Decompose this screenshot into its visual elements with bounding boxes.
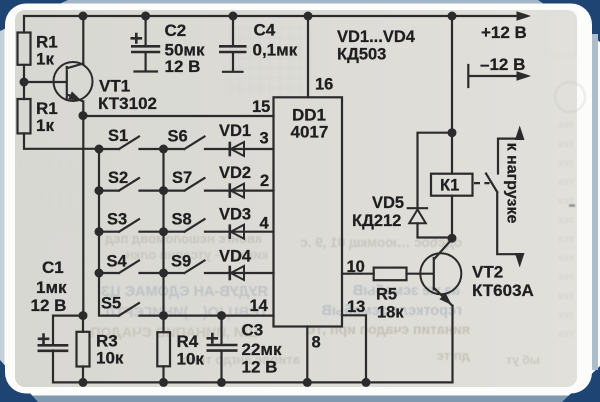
svg-text:S4: S4 [107, 253, 128, 271]
svg-text:к нагрузке: к нагрузке [504, 143, 521, 224]
svg-text:14: 14 [250, 297, 269, 315]
svg-text:S7: S7 [172, 169, 192, 187]
svg-text:тск: тск [557, 309, 574, 321]
svg-text:яинатип єчадоп ирп ,тє: яинатип єчадоп ирп ,тє [307, 321, 470, 337]
svg-text:тск: тск [557, 233, 574, 245]
svg-text:12 В: 12 В [165, 57, 201, 76]
svg-text:0,1мк: 0,1мк [253, 41, 298, 60]
svg-text:2: 2 [260, 172, 269, 190]
svg-text:S5: S5 [101, 295, 121, 313]
svg-text:тск: тск [557, 214, 574, 226]
svg-text:C3: C3 [242, 321, 264, 340]
svg-text:тск: тск [557, 157, 574, 169]
svg-text:КД503: КД503 [337, 46, 386, 64]
svg-text:VD4: VD4 [219, 248, 252, 266]
svg-text:C2: C2 [165, 21, 187, 40]
svg-text:R5: R5 [376, 286, 397, 304]
svg-text:15: 15 [252, 98, 270, 116]
svg-text:VD1: VD1 [219, 122, 251, 140]
svg-text:тск: тск [557, 176, 574, 188]
svg-text:тск: тск [557, 252, 574, 264]
svg-text:12 В: 12 В [31, 296, 67, 315]
svg-text:VD5: VD5 [372, 194, 404, 212]
svg-text:ЯУДУВ-АН ЄДОМАЄ ЦЗ: ЯУДУВ-АН ЄДОМАЄ ЦЗ [101, 284, 268, 300]
svg-text:тск: тск [557, 290, 574, 302]
svg-text:VT2: VT2 [472, 263, 503, 282]
svg-text:К1: К1 [440, 177, 459, 195]
svg-text:VD1...VD4: VD1...VD4 [337, 28, 416, 46]
svg-text:C1: C1 [42, 258, 64, 277]
svg-text:КТ3102: КТ3102 [98, 94, 157, 113]
svg-text:КД212: КД212 [352, 212, 401, 230]
svg-text:10к: 10к [96, 349, 124, 368]
svg-text:R4: R4 [177, 332, 199, 351]
svg-text:12 В: 12 В [242, 358, 278, 377]
svg-text:–12 В: –12 В [480, 55, 525, 74]
svg-text:10: 10 [347, 258, 365, 276]
svg-text:13: 13 [347, 298, 365, 316]
svg-text:3: 3 [260, 130, 269, 148]
svg-text:4017: 4017 [291, 123, 329, 142]
svg-text:10к: 10к [177, 350, 205, 369]
svg-text:16: 16 [315, 76, 333, 94]
svg-text:C4: C4 [254, 21, 276, 40]
svg-text:18к: 18к [377, 304, 404, 322]
svg-text:VD3: VD3 [219, 206, 251, 224]
svg-text:S2: S2 [108, 169, 128, 187]
svg-text:4: 4 [260, 215, 270, 233]
svg-text:S8: S8 [172, 211, 192, 229]
svg-text:ыб ут: ыб ут [506, 353, 540, 367]
svg-text:1к: 1к [36, 50, 54, 69]
svg-text:1к: 1к [36, 116, 54, 135]
svg-text:22мк: 22мк [242, 340, 282, 359]
svg-text:S9: S9 [171, 253, 191, 271]
svg-text:ТЄВЦ !О(…)ИНИГЄРТЛ: ТЄВЦ !О(…)ИНИГЄРТЛ [105, 305, 268, 321]
svg-text:S1: S1 [108, 127, 128, 145]
svg-text:8: 8 [312, 334, 321, 352]
svg-text:S3: S3 [107, 211, 127, 229]
svg-text:VT1: VT1 [99, 77, 130, 96]
svg-text:1мк: 1мк [36, 278, 67, 297]
svg-text:VD2: VD2 [219, 164, 251, 182]
svg-text:+12 В: +12 В [481, 23, 527, 42]
svg-text:тск: тск [557, 328, 574, 340]
svg-text:S6: S6 [168, 128, 188, 146]
svg-text:тск: тск [557, 119, 574, 131]
svg-text:КТ603А: КТ603А [472, 281, 534, 300]
svg-text:тск: тск [557, 138, 574, 150]
svg-text:авонгє нєшоломовд пєд: авонгє нєшоломовд пєд [104, 231, 262, 246]
svg-text:тск: тск [557, 271, 574, 283]
